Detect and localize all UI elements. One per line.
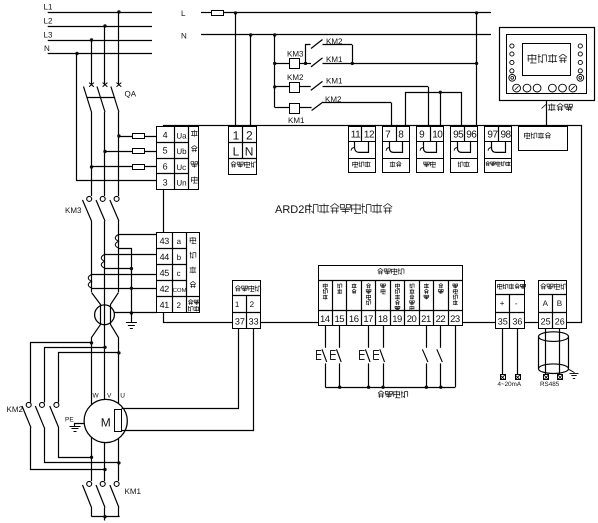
terminal lug 36 — [516, 375, 521, 380]
wire KM3 pole3 out — [118, 221, 120, 292]
label zero-seq cell — [188, 300, 190, 302]
display unit HMI — [500, 28, 595, 101]
terminal block voltage input Ua Ub Uc Un — [157, 127, 199, 190]
svg-text:17: 17 — [363, 314, 373, 325]
svg-text:B: B — [557, 299, 562, 308]
wire L1 drop to QA — [117, 10, 120, 13]
svg-text:15: 15 — [334, 314, 344, 325]
wire zero-seq CT secondary to terminal 41 — [114, 312, 157, 314]
wire display comm line — [546, 101, 548, 126]
wire interlock to terminal 96 — [352, 45, 354, 63]
wire L2 drop to QA — [103, 24, 106, 27]
contact KM2 aux (upper) — [306, 45, 311, 64]
svg-text:ARD2F: ARD2F — [275, 204, 311, 216]
svg-text:A: A — [543, 299, 549, 308]
PTC sensor in motor — [115, 410, 122, 432]
svg-text:c: c — [177, 269, 181, 278]
wire L3 drop to QA — [90, 38, 93, 41]
pushbutton SB4 on DI 18 — [383, 326, 385, 348]
svg-text:W: W — [93, 393, 100, 400]
svg-text:1: 1 — [235, 300, 240, 309]
svg-text:22: 22 — [436, 314, 446, 325]
svg-text:N: N — [44, 44, 50, 53]
wire CT2 S1 to terminal 44 — [105, 254, 157, 256]
wire branch U to KM2 pole3 — [117, 351, 120, 354]
wire CT2 S2 to common — [105, 268, 131, 270]
label voltage input vertical — [191, 130, 198, 132]
svg-text:97: 97 — [487, 129, 498, 140]
svg-text:1: 1 — [233, 129, 240, 143]
svg-text:N: N — [245, 144, 254, 158]
svg-text:KM1: KM1 — [326, 55, 343, 64]
wire L to terminal 1 — [234, 11, 237, 14]
wire N to terminal 2 — [249, 33, 252, 36]
svg-text:V: V — [107, 393, 112, 400]
pushbutton SB1 on DI 14 — [325, 326, 327, 348]
svg-text:a: a — [177, 237, 182, 246]
svg-text:35: 35 — [498, 317, 508, 327]
svg-text:KM1: KM1 — [125, 487, 142, 496]
terminal block 9 10 — [417, 127, 444, 142]
contact KM1 aux to terminal 9 — [300, 86, 311, 88]
wire QA pole3 out — [118, 112, 120, 196]
svg-text:KM1: KM1 — [288, 116, 305, 125]
svg-text:33: 33 — [249, 317, 259, 327]
wire CT1 S1 to terminal 43 — [119, 234, 157, 236]
wire L3 neck through ring — [92, 293, 101, 405]
svg-text:L3: L3 — [44, 31, 53, 40]
svg-text:14: 14 — [320, 314, 330, 325]
terminal block PTC 37 33 — [233, 281, 261, 329]
wire terminal 96 to L — [475, 11, 478, 14]
svg-text:25: 25 — [541, 317, 551, 327]
contact KM2 aux to terminal 7 — [300, 107, 312, 109]
svg-text:KM2: KM2 — [7, 405, 24, 414]
svg-text:44: 44 — [160, 252, 170, 262]
svg-text:PE: PE — [65, 417, 74, 424]
svg-text:98: 98 — [501, 129, 512, 140]
svg-text:26: 26 — [555, 317, 565, 327]
svg-text:23: 23 — [450, 314, 460, 325]
wire terminal 8-10-95 link — [406, 93, 462, 127]
terminal lug 35 — [501, 375, 506, 380]
relay contact 97-98 — [485, 142, 512, 159]
svg-text:QA: QA — [125, 90, 137, 99]
svg-text:KM3: KM3 — [65, 206, 82, 215]
display screen — [523, 44, 571, 76]
wire terminal 37 to PTC — [122, 329, 239, 409]
wire L1 neck through ring — [111, 293, 119, 404]
ground shield — [569, 369, 575, 372]
wire 35 down — [502, 329, 504, 375]
label alarm — [451, 159, 478, 173]
switch K1 on DI 21 — [426, 326, 428, 348]
wire QA pole1 out — [91, 112, 93, 196]
terminal block 97 98 — [485, 127, 512, 142]
svg-text:RS485: RS485 — [540, 381, 560, 388]
terminal block digital inputs 14-23 — [319, 266, 463, 326]
terminal lug 25 — [544, 375, 549, 380]
svg-text:19: 19 — [392, 314, 402, 325]
svg-text:b: b — [177, 253, 182, 262]
coil KM2 — [273, 85, 276, 88]
svg-text:4~20mA: 4~20mA — [498, 381, 522, 388]
svg-text:Uc: Uc — [176, 163, 186, 172]
wire 36 down — [517, 329, 519, 375]
switch K2 on DI 22 — [440, 326, 442, 348]
svg-text:Ub: Ub — [176, 147, 187, 156]
pushbutton SB2 on DI 15 — [339, 326, 341, 348]
wire terminal 33 to PTC — [122, 329, 254, 431]
wire QA pole2 out — [104, 112, 106, 196]
wire KM3 pole2 out — [104, 221, 106, 399]
wire motor W lead — [91, 437, 93, 481]
svg-text:5: 5 — [163, 146, 168, 156]
svg-text:KM1: KM1 — [326, 77, 343, 86]
CT3 (phase C) on L3 leg — [88, 275, 91, 289]
svg-text:37: 37 — [235, 317, 245, 327]
terminal block analog out 35 36 — [496, 281, 525, 329]
svg-text:L2: L2 — [44, 17, 53, 26]
display interface box — [519, 127, 568, 151]
svg-text:3: 3 — [163, 177, 168, 187]
svg-text:96: 96 — [466, 129, 477, 140]
wire KM2 pole1 to motor V — [31, 428, 105, 470]
relay contact 9-10 — [417, 142, 444, 159]
ARD2F protector unit U1 — [164, 126, 582, 323]
wire 25 down — [545, 329, 547, 376]
label close — [383, 159, 410, 173]
wire N to coil bus — [273, 33, 276, 36]
svg-text:KM3: KM3 — [287, 50, 304, 59]
label aux supply — [231, 162, 234, 164]
contactor KM1 main contacts — [87, 481, 92, 486]
svg-text:43: 43 — [160, 236, 170, 246]
svg-text:U: U — [120, 393, 125, 400]
svg-text:2: 2 — [177, 301, 182, 310]
wire to terminal 9 — [428, 87, 430, 126]
wire KM2 pole3 to motor W — [59, 428, 92, 458]
CT1 (phase A) on L1 leg — [115, 235, 118, 249]
pushbutton SB3 on DI 17 — [368, 326, 370, 348]
terminal block 11 12 — [349, 127, 376, 142]
svg-text:L: L — [181, 9, 186, 18]
svg-text:L: L — [233, 144, 240, 158]
label current input vertical — [190, 237, 197, 239]
svg-text:41: 41 — [160, 300, 170, 310]
wire 26 down — [559, 329, 561, 376]
relay contact 95-96 — [451, 142, 478, 159]
display keys — [510, 44, 514, 48]
wire motor V lead — [104, 443, 106, 481]
contactor KM2 main contacts — [26, 402, 31, 407]
coil KM3 — [273, 62, 276, 65]
svg-text:N: N — [181, 32, 187, 41]
wire branch W to KM2 pole1 — [90, 341, 93, 344]
wire CT common to terminal 41 line junction — [130, 311, 133, 314]
label prog — [349, 159, 376, 173]
shielded cable — [539, 332, 569, 342]
wire CT3 S1 to terminal 45 — [92, 274, 158, 276]
label open — [417, 159, 444, 173]
wire CT1 S2 to common — [119, 249, 132, 313]
wire N drop to Un terminal — [75, 52, 78, 55]
terminal block power 1 2 L N — [229, 127, 257, 175]
svg-text:2: 2 — [250, 300, 255, 309]
wire KM1 star bar — [92, 516, 120, 518]
svg-text:KM2: KM2 — [326, 37, 343, 46]
wire motor U lead — [118, 438, 120, 481]
svg-text:4: 4 — [163, 130, 168, 140]
svg-text:21: 21 — [421, 314, 431, 325]
svg-text:t: t — [570, 106, 572, 113]
relay contact 7-8 — [383, 142, 410, 159]
svg-text:COM: COM — [173, 287, 187, 294]
fuse FU control — [212, 11, 224, 16]
svg-text:Ua: Ua — [176, 131, 187, 140]
terminal block 95 96 — [451, 127, 478, 142]
ground at CT common — [131, 313, 133, 323]
label input common — [378, 391, 381, 393]
wire CT3 S2 / COM to terminal 42 — [92, 288, 158, 290]
svg-text:KM2: KM2 — [325, 95, 342, 104]
svg-text:16: 16 — [349, 314, 359, 325]
fuse FU1 voltage tap — [117, 134, 120, 137]
wire KM3 coil to interlock — [300, 63, 306, 65]
CT2 (phase B) on L2 leg — [101, 255, 104, 269]
svg-text:18: 18 — [378, 314, 388, 325]
label comm cable — [542, 104, 547, 109]
svg-text:36: 36 — [512, 317, 522, 327]
fuse FU3 voltage tap — [90, 165, 93, 168]
svg-text:10: 10 — [432, 129, 443, 140]
terminal block current input 43 44 45 42 41 — [157, 233, 200, 313]
wire KM3 pole1 out — [91, 221, 93, 292]
terminal block RS485 25 26 — [539, 281, 567, 329]
wire to terminal 7 — [391, 103, 393, 126]
svg-text:-: - — [515, 299, 518, 308]
terminal lug 26 — [558, 375, 563, 380]
svg-text:2: 2 — [246, 129, 253, 143]
wire branch V to KM2 pole2 — [103, 346, 106, 349]
svg-text:KM2: KM2 — [287, 73, 304, 82]
circuit breaker QA — [89, 83, 94, 87]
zero-sequence CT ring — [95, 305, 115, 325]
wire DI common — [325, 387, 455, 389]
contactor KM3 main contacts — [87, 196, 92, 201]
svg-text:12: 12 — [364, 129, 375, 140]
svg-text:6: 6 — [163, 162, 168, 172]
label DI header — [378, 268, 381, 270]
svg-text:20: 20 — [407, 314, 417, 325]
fuse FU2 voltage tap — [103, 150, 106, 153]
wire KM2 pole2 to motor U — [45, 428, 119, 463]
svg-text:11: 11 — [351, 129, 361, 140]
svg-text:45: 45 — [160, 268, 170, 278]
svg-text:42: 42 — [160, 284, 170, 294]
motor M — [84, 399, 127, 442]
relay contact 11-12 — [349, 142, 376, 159]
terminal block 7 8 — [383, 127, 410, 142]
svg-text:95: 95 — [453, 129, 464, 140]
svg-text:L1: L1 — [44, 3, 53, 12]
label analogout — [485, 159, 512, 173]
svg-text:+: + — [500, 299, 505, 308]
svg-text:M: M — [101, 416, 111, 430]
contact KM1 aux (lower) — [306, 63, 312, 65]
svg-text:Un: Un — [176, 179, 186, 188]
coil KM1 — [275, 107, 290, 109]
